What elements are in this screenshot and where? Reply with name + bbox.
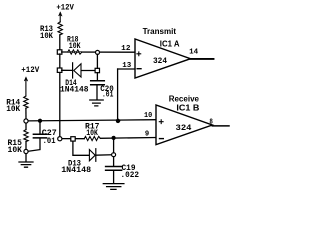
- ground (C19): [103, 184, 124, 190]
- node square D13 left riser top: [71, 137, 75, 141]
- ground (R15/C27): [19, 162, 33, 167]
- wire R15 bottom: [25, 142, 27, 150]
- node circle R17 row left: [58, 137, 62, 141]
- wire D13 left riser and row: [73, 141, 112, 155]
- label Transmit: [143, 26, 177, 36]
- wire R13 bottom to node: [59, 35, 61, 52]
- pin label 9: [145, 130, 149, 138]
- node circle D13 / C19 junction: [112, 153, 116, 157]
- label C20 value: [100, 84, 114, 100]
- label 324 (IC1B): [176, 123, 192, 133]
- svg-text:10K: 10K: [40, 31, 54, 41]
- label C27 value: [42, 128, 57, 146]
- wire R17 row right (to IC1B -input): [100, 137, 156, 140]
- wire pin 12 row (node to IC1A +input): [62, 51, 135, 53]
- svg-text:+12V: +12V: [56, 3, 74, 13]
- node circle bias divider: [24, 119, 28, 123]
- op-amp U1 IC1B triangle: [156, 105, 212, 145]
- node square at R13 / R18 junction: [57, 50, 62, 54]
- +12V supply label (left, R14 branch): [21, 65, 40, 75]
- diode D14 (cathode bar left): [73, 63, 81, 78]
- svg-text:14: 14: [189, 49, 199, 57]
- wire R15 top stub: [25, 123, 27, 129]
- label R13 value: [40, 24, 54, 41]
- wire R14 bottom to bias node: [25, 108, 27, 119]
- label 324 (IC1A): [153, 56, 167, 66]
- capacitor C19: [106, 167, 122, 171]
- svg-text:324: 324: [153, 56, 167, 66]
- op-amp U1 IC1A triangle: [135, 39, 191, 78]
- node circle R15/C27 ground junction: [24, 149, 28, 153]
- label D14: [60, 78, 89, 94]
- wire pin 13 stub: [118, 68, 135, 70]
- minus input symbol IC1B: [160, 138, 164, 140]
- pin label 14: [189, 49, 199, 57]
- resistor R13: [58, 22, 62, 35]
- label R17 value: [85, 122, 100, 139]
- label C19 value: [121, 163, 140, 180]
- svg-text:324: 324: [176, 123, 192, 133]
- capacitor C20: [91, 81, 105, 85]
- svg-text:1N4148: 1N4148: [60, 85, 89, 95]
- label IC1 A: [160, 38, 180, 48]
- label IC1 B: [176, 102, 199, 112]
- svg-text:12: 12: [121, 45, 130, 53]
- label D13: [61, 158, 91, 175]
- capacitor C27: [33, 134, 46, 138]
- diode D13 (points right, cathode bar right): [89, 149, 95, 162]
- node dot R17 / D13 / C19 junction: [112, 136, 116, 140]
- wire IC1A output pin 14: [191, 58, 214, 60]
- wire D14 row: [62, 69, 96, 71]
- pin label 8: [209, 119, 213, 127]
- label R15 value: [8, 138, 23, 155]
- pin label 13: [122, 62, 131, 70]
- svg-text:.01: .01: [102, 90, 113, 100]
- wire R17 row left (node to R17): [62, 138, 85, 140]
- svg-text:IC1 A: IC1 A: [160, 38, 180, 48]
- svg-text:.01: .01: [43, 136, 56, 146]
- resistor R17: [84, 136, 100, 140]
- label R14 value: [6, 98, 21, 114]
- wire C20 column: [96, 54, 98, 99]
- svg-text:9: 9: [145, 130, 149, 138]
- plus input symbol IC1A: [137, 52, 141, 56]
- label Receive: [169, 93, 199, 103]
- node circle at R18 / C20 junction: [96, 50, 100, 54]
- node square at D14 / C20 junction: [95, 68, 99, 72]
- svg-text:10K: 10K: [6, 104, 21, 114]
- wire C27 bottom L to ground node: [28, 139, 40, 152]
- resistor R18: [68, 50, 82, 54]
- wire feedback vertical pin13 to bias node: [117, 69, 119, 121]
- node dot C27 tap: [38, 119, 42, 123]
- node dot feedback junction: [116, 119, 120, 123]
- svg-text:10K: 10K: [8, 145, 23, 155]
- svg-text:IC1 B: IC1 B: [176, 102, 199, 112]
- resistor R14: [24, 96, 28, 108]
- node square at D14 row left: [57, 68, 62, 72]
- svg-text:.022: .022: [121, 170, 140, 180]
- wire C19 column: [113, 140, 115, 183]
- wire pin 10 row (bias node to IC1B +input): [28, 120, 156, 121]
- resistor R15: [24, 130, 28, 142]
- svg-text:10K: 10K: [86, 128, 98, 138]
- wire C27 top: [39, 123, 41, 134]
- wire IC1B output pin 8: [212, 125, 229, 127]
- minus input symbol IC1A: [137, 68, 141, 70]
- +12V supply label (top, R13 branch): [56, 3, 74, 13]
- svg-text:Transmit: Transmit: [143, 26, 177, 36]
- pin label 12: [121, 45, 130, 53]
- svg-text:+12V: +12V: [21, 65, 40, 75]
- svg-text:1N4148: 1N4148: [61, 165, 91, 175]
- ground (C20): [90, 100, 103, 106]
- svg-text:10: 10: [144, 112, 152, 120]
- +12V supply arrow (left): [24, 77, 27, 96]
- pin label 10: [144, 112, 152, 120]
- wire ground stub (left): [25, 154, 27, 162]
- plus input symbol IC1B: [159, 120, 163, 124]
- svg-text:10K: 10K: [69, 41, 81, 51]
- +12V supply arrow (top): [59, 12, 62, 22]
- wire vertical left column (node to R17 row): [59, 54, 61, 139]
- label R18 value: [67, 34, 81, 50]
